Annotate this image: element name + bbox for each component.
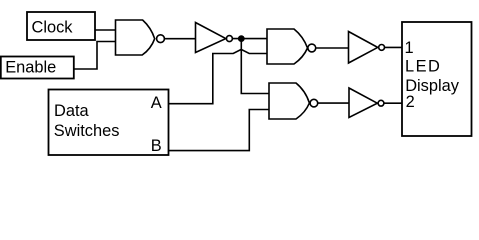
svg-text:1: 1 [405,39,414,57]
NAND gate U1 bubble [157,35,165,43]
inverter U5 bubble [379,45,385,51]
NAND gate U4 body [269,83,309,119]
wire Clock to NAND U1 [95,29,116,31]
inverter U6 bubble [378,100,384,106]
svg-text:2: 2 [406,93,415,111]
input box Enable [1,57,74,79]
input box Clock [27,12,95,40]
wire B to NAND U4 [169,110,270,151]
inverter U6 triangle [349,88,377,118]
wire U1 to inverter U2 [164,38,195,40]
junction node dot [238,35,245,42]
svg-text:Switches: Switches [54,122,120,140]
output box LED Display [402,22,472,136]
svg-text:A: A [151,94,162,112]
wire junction down to NAND U4 [241,39,269,94]
wire U6 to LED pin 2 [384,102,402,104]
svg-text:Data: Data [54,102,90,120]
svg-text:Display: Display [405,77,460,95]
wire A to NAND U3 with hop over vertical [169,49,268,103]
wire Enable to NAND U1 [74,42,116,70]
NAND gate U3 bubble [308,44,316,52]
wire U2 to NAND U3 [233,38,267,40]
NAND gate U1 body [116,20,155,55]
NAND gate U4 bubble [310,99,318,107]
wire U5 to LED pin 1 [385,46,403,48]
svg-text:Clock: Clock [32,18,74,36]
svg-text:Enable: Enable [5,59,56,77]
inverter U2 triangle [196,23,226,53]
NAND gate U3 body [267,29,308,64]
inverter U2 bubble [226,36,232,42]
svg-text:LED: LED [405,58,441,76]
inverter U5 triangle [349,32,378,64]
wire U4 to inverter U6 [318,102,349,104]
input box Data Switches [49,90,169,156]
svg-text:B: B [151,137,162,155]
wire U3 to inverter U5 [316,47,349,49]
